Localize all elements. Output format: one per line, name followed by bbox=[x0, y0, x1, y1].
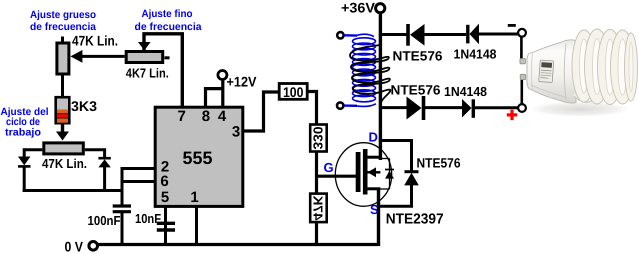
wire: pin 2 stub bbox=[121, 167, 156, 170]
svg-text:555: 555 bbox=[183, 148, 213, 168]
svg-text:Ajuste fino: Ajuste fino bbox=[142, 8, 193, 20]
label: Ajuste del ciclo de trabajo bbox=[1, 106, 49, 139]
svg-text:4K7 Lin.: 4K7 Lin. bbox=[126, 66, 169, 81]
svg-text:4: 4 bbox=[218, 108, 227, 125]
svg-text:1: 1 bbox=[190, 189, 198, 206]
capacitor C2 10nF bbox=[157, 223, 175, 230]
capacitor C1 100nF bbox=[113, 206, 131, 246]
wire: 0V bottom rail bbox=[98, 243, 379, 246]
svg-text:+12V: +12V bbox=[227, 74, 258, 90]
diode D5 NTE576 (points right) bbox=[407, 96, 463, 120]
svg-text:1N4148: 1N4148 bbox=[444, 84, 487, 99]
svg-text:de frecuencia: de frecuencia bbox=[135, 21, 202, 33]
svg-text:3K3: 3K3 bbox=[71, 98, 97, 114]
svg-text:trabajo: trabajo bbox=[5, 127, 41, 139]
inductor T1 primary (blue winding) bbox=[344, 34, 376, 106]
tube necks from base bbox=[576, 42, 599, 49]
diode D6 1N4148 (points right) bbox=[462, 99, 518, 118]
terminal: primary bottom (black circle) bbox=[337, 102, 343, 108]
svg-text:5: 5 bbox=[161, 189, 169, 206]
wire: top rectifier rail bbox=[380, 33, 407, 36]
wire: R4 bottom to 0V rail bbox=[315, 222, 318, 246]
svg-text:7: 7 bbox=[178, 108, 186, 125]
inductor T1 secondary (black winding) bbox=[350, 45, 390, 104]
resistor R1 3K3 body with bands bbox=[56, 97, 70, 123]
svg-text:47K: 47K bbox=[311, 195, 326, 221]
terminal: +12V bbox=[206, 71, 227, 108]
spiral rings bbox=[572, 29, 638, 105]
svg-text:47K Lin.: 47K Lin. bbox=[42, 156, 87, 171]
diode D1 (points down) bbox=[18, 157, 31, 193]
label: Ajuste fino de frecuencia bbox=[135, 8, 202, 33]
lamp CFL bulb bbox=[527, 29, 638, 105]
svg-text:6: 6 bbox=[160, 173, 168, 190]
svg-text:10nF: 10nF bbox=[135, 211, 161, 226]
potentiometer RV2 4K7 Lin. (fine frequency) bbox=[126, 52, 169, 63]
svg-text:Ajuste grueso: Ajuste grueso bbox=[30, 9, 96, 21]
wire: gate junction vertical bbox=[315, 151, 318, 194]
svg-text:8: 8 bbox=[202, 108, 210, 125]
potentiometer RV1 47K Lin. (coarse frequency) bbox=[57, 43, 69, 74]
svg-text:0 V: 0 V bbox=[65, 239, 84, 254]
svg-text:NTE576: NTE576 bbox=[393, 49, 443, 64]
terminal: plus output bbox=[507, 78, 526, 120]
svg-text:D: D bbox=[369, 130, 378, 145]
wire: pin 1 to rail bbox=[195, 206, 198, 246]
diode D2 (points up) bbox=[98, 158, 110, 192]
svg-text:NTE576: NTE576 bbox=[391, 83, 441, 98]
svg-text:100nF: 100nF bbox=[88, 213, 121, 228]
wire: R1 to RV3 wiper arrow (down) bbox=[56, 124, 69, 140]
diode D3 NTE576 (points left) bbox=[408, 24, 466, 46]
terminal: minus output bbox=[508, 24, 526, 60]
wire: source to 0V rail bbox=[377, 190, 380, 246]
wire: RV1 wiper link with left arrowhead bbox=[70, 50, 124, 63]
label: Ajuste grueso de frecuencia bbox=[30, 9, 96, 33]
wire: Ajuste fino net with down arrow to RV2 wiper bbox=[138, 34, 182, 107]
svg-text:de frecuencia: de frecuencia bbox=[30, 21, 96, 33]
lamp contact nubs bbox=[520, 59, 526, 80]
terminal: primary top (black circle) bbox=[337, 32, 343, 38]
wire: drain to source via body-diode column (D7 NTE576) bbox=[379, 141, 419, 207]
wire: RV3 right terminal to diode D2 bbox=[85, 150, 105, 158]
potentiometer RV3 47K Lin. (duty cycle) bbox=[44, 143, 84, 154]
wire: RV1 bottom to R1 bbox=[61, 75, 64, 98]
IC U1 555 timer body bbox=[155, 107, 243, 206]
wire: junction vertical to pins 2/6 and 100nF bbox=[121, 167, 124, 206]
svg-text:47K Lin.: 47K Lin. bbox=[72, 33, 118, 49]
svg-text:100: 100 bbox=[283, 84, 304, 100]
wire: gate horizontal to MOSFET bbox=[315, 175, 358, 178]
svg-text:NTE576: NTE576 bbox=[417, 155, 461, 170]
wire: +36V rail down to drain bbox=[379, 13, 382, 161]
svg-text:NTE2397: NTE2397 bbox=[386, 212, 444, 228]
transistor Q1 NTE2397 MOSFET bbox=[335, 143, 394, 207]
terminal: 0V bbox=[65, 239, 98, 254]
resistor R2 100 bbox=[279, 84, 307, 101]
wire: pin 6 stub bbox=[121, 180, 156, 183]
svg-text:G: G bbox=[324, 160, 334, 175]
resistor R4 47K bbox=[310, 194, 327, 223]
resistor R3 330 bbox=[310, 125, 327, 152]
wire: R2 right to gate column bbox=[308, 92, 317, 125]
svg-text:+36V: +36V bbox=[341, 0, 376, 16]
wire: pin 5 to rail through C2 bbox=[164, 206, 167, 246]
wire: RV3 left terminal to diode D1 bbox=[24, 150, 42, 157]
svg-text:3: 3 bbox=[232, 124, 240, 141]
wire: bottom net of duty-cycle loop bbox=[23, 189, 124, 192]
lamp shadow bbox=[526, 101, 634, 118]
wire: pin 3 output up to R2 bbox=[242, 92, 279, 131]
wire: middle rectifier rail bbox=[380, 106, 407, 109]
label sticker on base bbox=[539, 60, 554, 82]
plastic base housing bbox=[527, 40, 576, 103]
svg-text:330: 330 bbox=[311, 127, 326, 150]
wire: top stub of coarse pot bbox=[61, 37, 64, 44]
svg-text:1N4148: 1N4148 bbox=[454, 46, 497, 61]
diode D4 1N4148 (points left) bbox=[468, 24, 518, 45]
terminal: +36V bbox=[341, 0, 385, 16]
